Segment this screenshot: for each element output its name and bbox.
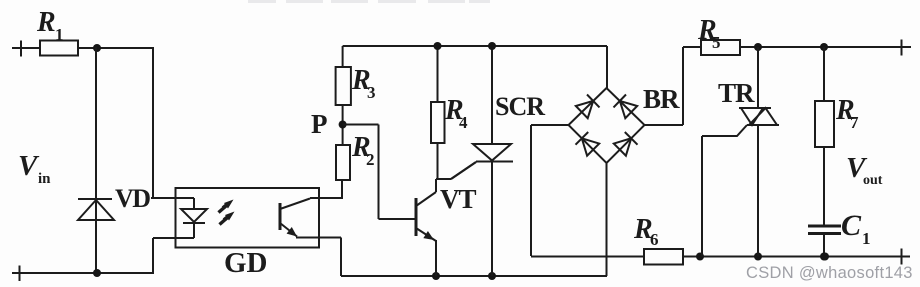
svg-text:R: R: [36, 7, 56, 38]
svg-text:in: in: [38, 171, 51, 187]
svg-text:1: 1: [862, 229, 871, 248]
svg-text:7: 7: [850, 113, 859, 132]
svg-text:BR: BR: [643, 84, 680, 114]
svg-text:VD: VD: [115, 184, 150, 213]
svg-text:4: 4: [459, 113, 468, 132]
svg-text:C: C: [841, 209, 862, 242]
svg-text:5: 5: [712, 33, 721, 52]
svg-text:GD: GD: [224, 247, 268, 279]
svg-text:CSDN @whaosoft143: CSDN @whaosoft143: [746, 264, 913, 282]
svg-text:3: 3: [367, 83, 376, 102]
svg-text:out: out: [863, 173, 883, 188]
svg-text:P: P: [311, 109, 328, 139]
svg-text:SCR: SCR: [495, 92, 545, 121]
svg-text:6: 6: [650, 230, 659, 249]
svg-text:V: V: [18, 150, 40, 182]
svg-text:VT: VT: [440, 184, 476, 214]
svg-text:1: 1: [55, 25, 64, 44]
svg-text:TR: TR: [718, 78, 755, 108]
svg-text:2: 2: [366, 150, 375, 169]
